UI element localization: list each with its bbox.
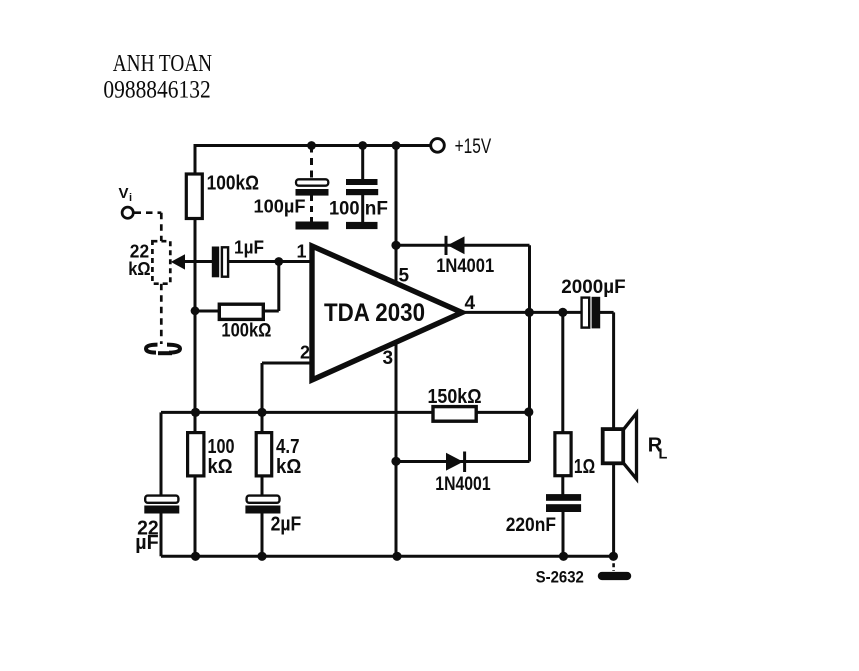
svg-text:4: 4 <box>465 293 476 314</box>
svg-text:kΩ: kΩ <box>276 456 301 478</box>
svg-text:5: 5 <box>399 265 410 286</box>
svg-text:ANH TOAN: ANH TOAN <box>113 51 212 77</box>
svg-text:1µF: 1µF <box>234 238 264 258</box>
svg-text:L: L <box>659 447 668 463</box>
svg-text:2: 2 <box>300 343 310 363</box>
svg-text:100kΩ: 100kΩ <box>221 320 271 342</box>
svg-text:i: i <box>129 192 132 204</box>
svg-text:1: 1 <box>297 242 307 262</box>
svg-text:100kΩ: 100kΩ <box>207 173 259 195</box>
svg-text:150kΩ: 150kΩ <box>428 386 482 408</box>
svg-text:220nF: 220nF <box>506 515 556 536</box>
svg-text:µF: µF <box>135 532 158 554</box>
svg-text:1N4001: 1N4001 <box>436 256 494 277</box>
svg-text:0988846132: 0988846132 <box>103 77 210 104</box>
svg-text:nF: nF <box>365 198 388 220</box>
svg-text:1Ω: 1Ω <box>574 456 595 478</box>
svg-text:1N4001: 1N4001 <box>435 474 491 495</box>
svg-text:4.7: 4.7 <box>276 436 300 458</box>
svg-text:100: 100 <box>329 198 360 220</box>
svg-text:V: V <box>119 185 129 202</box>
svg-text:+15V: +15V <box>455 135 492 158</box>
svg-text:2000µF: 2000µF <box>561 277 625 298</box>
svg-text:kΩ: kΩ <box>128 258 150 279</box>
svg-text:S-2632: S-2632 <box>536 568 584 586</box>
svg-text:TDA 2030: TDA 2030 <box>324 299 425 327</box>
svg-text:100: 100 <box>208 436 235 458</box>
svg-text:100µF: 100µF <box>254 197 306 217</box>
svg-text:2µF: 2µF <box>271 514 302 536</box>
svg-text:3: 3 <box>383 348 394 369</box>
svg-text:kΩ: kΩ <box>208 456 233 478</box>
